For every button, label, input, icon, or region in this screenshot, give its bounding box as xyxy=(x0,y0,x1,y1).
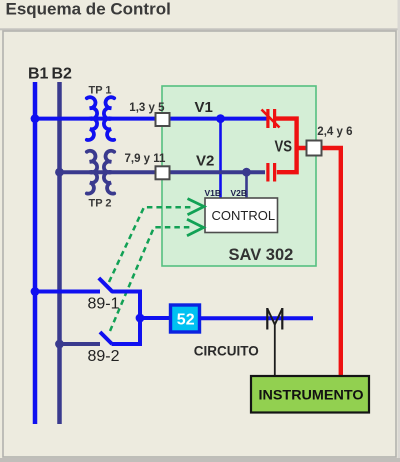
switch 89-1 input wire xyxy=(35,290,100,294)
label SAV 302 xyxy=(229,246,294,264)
label VS xyxy=(275,139,293,156)
red wire VS bracket xyxy=(276,119,297,173)
green enclosure SAV 302 xyxy=(162,86,316,266)
terminal square 7,9 y 11 xyxy=(156,166,170,179)
breaker 52 box xyxy=(171,305,200,332)
svg-text:7,9 y 11: 7,9 y 11 xyxy=(125,153,167,165)
switch 89-1 blade xyxy=(99,278,113,292)
sense dashed link 89-2 to CONTROL xyxy=(110,227,191,331)
svg-text:2,4 y 6: 2,4 y 6 xyxy=(317,126,352,138)
svg-text:CIRCUITO: CIRCUITO xyxy=(194,344,259,359)
INSTRUMENTO box xyxy=(251,376,369,413)
wire TP2 primary (B2 to square 7,9y11) xyxy=(60,170,163,174)
wire V2B tap xyxy=(245,172,248,198)
svg-text:Esquema de Control: Esquema de Control xyxy=(6,0,171,18)
junction B1/89-1 xyxy=(31,287,40,296)
junction B2/89-2 xyxy=(55,340,64,349)
switch 89-2 input wire xyxy=(60,342,101,346)
title underline xyxy=(0,28,398,30)
wire circuit line xyxy=(199,316,313,320)
label V1 xyxy=(195,99,213,116)
svg-text:V2B: V2B xyxy=(231,188,248,198)
svg-text:TP 2: TP 2 xyxy=(89,198,112,210)
label B1 xyxy=(28,66,49,83)
label B2 xyxy=(52,66,73,83)
red wire VS output to instrument xyxy=(297,148,341,377)
svg-text:V1: V1 xyxy=(195,99,213,116)
svg-text:B1: B1 xyxy=(28,66,49,83)
capacitor (bottom) xyxy=(266,163,276,182)
label 1,3 y 5 xyxy=(129,102,165,114)
capacitor VS variable (top, with slash) xyxy=(262,109,280,128)
wire switch outputs connector xyxy=(112,292,141,345)
junction B1/TP1 xyxy=(31,114,40,123)
svg-text:52: 52 xyxy=(177,311,195,328)
transformer TP2 xyxy=(87,151,114,194)
terminal square 2,4 y 6 xyxy=(307,141,322,156)
junction switch bus / breaker line xyxy=(136,314,145,323)
wire V2 xyxy=(162,170,265,174)
CONTROL box xyxy=(205,198,278,233)
right gray strip xyxy=(398,0,400,462)
svg-text:89-2: 89-2 xyxy=(88,348,120,365)
transformer TP1 xyxy=(87,97,114,140)
bus B1 xyxy=(33,82,38,424)
svg-text:INSTRUMENTO: INSTRUMENTO xyxy=(259,387,364,403)
node V1 junction xyxy=(216,114,225,123)
node V2 junction xyxy=(242,168,251,177)
label 7,9 y 11 xyxy=(125,153,167,165)
svg-text:V2: V2 xyxy=(196,152,214,169)
svg-text:B2: B2 xyxy=(52,66,73,83)
arrowhead to CONTROL (lower) xyxy=(187,219,204,235)
sense dashed link 89-1 to CONTROL xyxy=(109,207,191,282)
svg-text:TP 1: TP 1 xyxy=(89,85,112,97)
label 89-1 xyxy=(88,296,120,313)
svg-text:CONTROL: CONTROL xyxy=(212,208,276,223)
arrowhead to CONTROL (upper) xyxy=(188,199,205,215)
wire M to instrument xyxy=(274,325,276,378)
svg-text:89-1: 89-1 xyxy=(88,296,120,313)
label V2 xyxy=(196,152,214,169)
bus B2 xyxy=(57,82,62,424)
label CIRCUITO xyxy=(194,344,259,359)
label TP 1 xyxy=(89,85,112,97)
svg-text:SAV 302: SAV 302 xyxy=(229,246,294,264)
label V1B xyxy=(205,188,222,198)
label 89-2 xyxy=(88,348,120,365)
junction B2/TP2 xyxy=(55,168,64,177)
svg-text:VS: VS xyxy=(275,139,293,156)
label TP 2 xyxy=(89,198,112,210)
wire to breaker 52 xyxy=(140,316,172,320)
label V2B xyxy=(231,188,248,198)
svg-text:V1B: V1B xyxy=(205,188,222,198)
label 2,4 y 6 xyxy=(317,126,352,138)
terminal square 1,3 y 5 xyxy=(156,113,170,126)
wire V1 xyxy=(162,117,267,121)
wire V1B tap xyxy=(219,119,222,198)
bottom gray strip xyxy=(0,458,400,462)
switch 89-2 blade xyxy=(100,332,112,344)
wire TP1 primary (B1 to square 1,3y5) xyxy=(35,117,162,121)
measuring tap M symbol xyxy=(267,308,282,330)
